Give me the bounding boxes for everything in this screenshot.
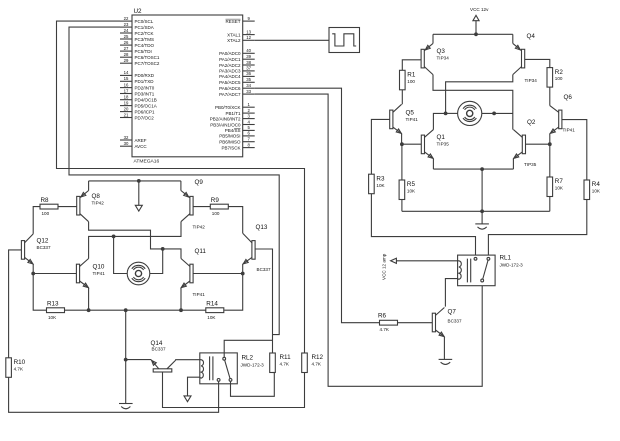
wire R2 to Q6 collector	[549, 87, 551, 106]
ground	[119, 404, 133, 409]
junction rail Q14	[124, 308, 128, 312]
svg-text:R11: R11	[280, 354, 292, 361]
wire Q10 emitter down	[88, 288, 90, 311]
junction ground rail	[480, 209, 484, 213]
power flag (down arrow)	[184, 396, 191, 402]
svg-text:PC2/TCK: PC2/TCK	[135, 31, 154, 36]
wire RL2 throw to R10	[9, 377, 219, 412]
wire motor1 right pin	[482, 112, 513, 114]
svg-text:R9: R9	[211, 197, 220, 204]
svg-text:PC3/TMS: PC3/TMS	[135, 37, 155, 42]
pin 23 PC1/SDA	[120, 26, 132, 28]
svg-text:10K: 10K	[48, 315, 57, 320]
svg-text:PD6/ICP1: PD6/ICP1	[135, 109, 156, 114]
svg-text:PD7/OC2: PD7/OC2	[135, 115, 155, 120]
clock source X1 square wave	[329, 28, 360, 53]
wire Q5 base to R3	[371, 119, 389, 174]
svg-text:10K: 10K	[555, 186, 564, 191]
transistor Q2 TIP35 (NPN)	[513, 119, 537, 167]
resistor R13	[47, 301, 65, 320]
svg-text:AREF: AREF	[135, 138, 147, 143]
pin 16 PD2/INT0	[120, 87, 132, 89]
svg-text:100: 100	[407, 79, 415, 84]
pin 21 PD7/OC2	[120, 117, 132, 119]
svg-text:35: 35	[246, 77, 251, 82]
wire R8 to Q8 base	[58, 206, 77, 208]
svg-text:15: 15	[124, 76, 129, 81]
svg-text:33: 33	[246, 89, 251, 94]
svg-text:Q13: Q13	[256, 224, 268, 231]
pin 24 PC2/TCK	[120, 32, 132, 34]
svg-text:14: 14	[124, 70, 129, 75]
wire emitter rail to ground rail	[481, 169, 483, 211]
pin 4 PB3/AIN1/OC0	[243, 124, 255, 126]
svg-text:10K: 10K	[592, 189, 601, 194]
pin 34 PA6/ADC6	[243, 87, 255, 89]
svg-text:PB6/MISO: PB6/MISO	[219, 140, 241, 145]
wire top rail bridge2	[89, 180, 181, 182]
svg-text:PD5/OC1A: PD5/OC1A	[135, 103, 157, 108]
transistor Q7 BC337 (NPN)	[432, 308, 462, 339]
transistor Q13 BC337 (NPN)	[242, 224, 271, 272]
svg-text:ATMEGA16: ATMEGA16	[134, 159, 160, 165]
junction motor1 left	[444, 112, 448, 116]
svg-text:R5: R5	[407, 181, 416, 188]
junction emitter rail	[480, 167, 484, 171]
svg-text:19: 19	[124, 100, 129, 105]
svg-text:27: 27	[124, 46, 129, 51]
svg-text:34: 34	[246, 83, 251, 88]
svg-text:Q9: Q9	[195, 179, 204, 186]
transistor Q12 BC337 (NPN)	[21, 234, 51, 265]
wire Q8 collector to Q11 collector	[89, 222, 181, 259]
wire RL2 coil down	[188, 377, 200, 396]
svg-text:TIP41: TIP41	[93, 271, 106, 276]
power flag VCC 12v	[470, 7, 489, 34]
resistor R11	[270, 353, 291, 373]
pin 39 PA1/ADC1	[243, 58, 255, 60]
wire Q12 base to R10	[9, 250, 22, 358]
transistor Q14 BC337 (NPN, rotated)	[150, 340, 175, 372]
transistor Q5 TIP41 (NPN)	[390, 104, 419, 135]
svg-text:PA1/ADC1: PA1/ADC1	[219, 57, 241, 62]
svg-text:4.7K: 4.7K	[312, 362, 322, 367]
svg-text:PC1/SDA: PC1/SDA	[135, 25, 154, 30]
transistor Q1 TIP35 (NPN)	[421, 130, 449, 160]
wire R11 bottom stub	[273, 372, 275, 374]
pin 37 PA3/ADC3	[243, 70, 255, 72]
svg-text:RL1: RL1	[500, 255, 512, 262]
svg-text:PC4/TDO: PC4/TDO	[135, 43, 155, 48]
svg-text:TIP41: TIP41	[406, 117, 419, 122]
svg-text:Q8: Q8	[92, 193, 101, 200]
transistor Q11 TIP41 (NPN)	[180, 248, 206, 297]
pin 12 XTAL2	[243, 39, 255, 41]
wire PC0 to R12	[57, 21, 305, 353]
wire Q1 emitter down	[432, 159, 434, 170]
svg-text:Q12: Q12	[37, 238, 49, 245]
svg-text:22: 22	[124, 16, 129, 21]
relay RL1 JWD-172-3	[458, 255, 524, 286]
svg-text:XTAL2: XTAL2	[227, 38, 241, 43]
svg-text:4.7K: 4.7K	[14, 366, 24, 371]
svg-text:29: 29	[124, 58, 129, 63]
wire node to Q11 base	[193, 273, 243, 275]
junction top rail	[137, 179, 141, 183]
resistor R5	[399, 180, 416, 200]
resistor R9	[210, 197, 228, 216]
resistor R1	[400, 70, 416, 90]
svg-text:36: 36	[246, 71, 251, 76]
svg-text:Q6: Q6	[564, 94, 573, 101]
svg-text:JWD-172-3: JWD-172-3	[500, 263, 524, 268]
svg-text:R12: R12	[312, 354, 324, 361]
pin 5 PB4/SS	[243, 129, 255, 131]
wire node to Q1 base	[402, 143, 421, 145]
pin 28 PC6/TOSC1	[120, 56, 132, 58]
svg-text:30: 30	[124, 141, 129, 146]
svg-text:TIP42: TIP42	[193, 225, 206, 230]
svg-text:18: 18	[124, 95, 129, 100]
svg-text:Q4: Q4	[527, 33, 536, 40]
svg-text:12: 12	[246, 35, 251, 40]
wire Q14 collector to RL2 coil	[176, 359, 200, 361]
wire ground rail	[402, 210, 550, 212]
relay RL2 JWD-172-3	[200, 353, 264, 384]
svg-text:Q2: Q2	[527, 119, 536, 126]
svg-text:JWD-172-3: JWD-172-3	[241, 363, 265, 368]
wire R4 to relay RL1 throw	[488, 200, 586, 258]
svg-text:Q5: Q5	[406, 110, 415, 117]
svg-text:VCC 12v: VCC 12v	[470, 7, 489, 12]
junction Q14 emitter	[124, 358, 128, 362]
wire Q2 emitter down	[512, 159, 514, 170]
svg-text:PA5/ADC5: PA5/ADC5	[219, 80, 241, 85]
wire XTAL2 to clock source	[255, 39, 329, 41]
wire node to R5	[401, 144, 403, 180]
microcontroller U2 ATMEGA16	[120, 8, 255, 165]
wire R3 to relay RL1 common	[371, 194, 475, 257]
svg-text:R4: R4	[592, 181, 601, 188]
wire Q7 emitter to ground	[443, 337, 445, 360]
svg-text:TIP41: TIP41	[193, 292, 206, 297]
pin 26 PC4/TDO	[120, 44, 132, 46]
svg-text:PD1/TXD: PD1/TXD	[135, 79, 155, 84]
pin 29 PC7/TOSC2	[120, 62, 132, 64]
svg-text:R7: R7	[555, 178, 564, 185]
wire Q8 emitter to rail	[88, 181, 90, 191]
svg-text:BC337: BC337	[37, 245, 51, 250]
motor motor2	[127, 262, 150, 285]
wire to motor2 left pin	[114, 236, 128, 273]
pin 19 PD5/OC1A	[120, 105, 132, 107]
svg-text:PC5/TDI: PC5/TDI	[135, 49, 152, 54]
svg-text:24: 24	[124, 28, 129, 33]
resistor R2	[547, 68, 563, 88]
svg-text:17: 17	[124, 88, 129, 93]
pin 27 PC5/TDI	[120, 50, 132, 52]
wire VCC rail	[433, 33, 513, 35]
wire R1 to Q3 base	[402, 60, 421, 71]
wire Q3 emitter to VCC rail	[432, 34, 434, 43]
svg-text:10K: 10K	[376, 183, 385, 188]
wire node to R14	[224, 274, 243, 311]
pin 30 AVCC	[120, 145, 132, 147]
junction Q12 emitter node	[31, 272, 35, 276]
wire R1 to Q5 collector	[401, 90, 403, 105]
junction Q5 emitter node	[400, 142, 404, 146]
svg-text:R14: R14	[206, 301, 218, 308]
pin 36 PA4/ADC4	[243, 75, 255, 77]
ground	[475, 211, 489, 229]
wire motor1 left to Q1 collector	[433, 113, 445, 129]
svg-text:16: 16	[124, 82, 129, 87]
svg-text:Q7: Q7	[448, 309, 457, 316]
svg-text:BC337: BC337	[257, 267, 271, 272]
pin 7 PB6/MISO	[243, 141, 255, 143]
wire Q9 emitter to rail	[180, 181, 182, 191]
svg-text:PA3/ADC3: PA3/ADC3	[219, 69, 241, 74]
pin 14 PD0/RXD	[120, 74, 132, 76]
svg-text:U2: U2	[134, 8, 143, 15]
wire Q14 base to R12	[163, 372, 305, 408]
svg-text:PD4/OC1B: PD4/OC1B	[135, 98, 157, 103]
pin 3 PB2/AIN0/INT2	[243, 118, 255, 120]
wire node to R13	[33, 274, 46, 311]
svg-text:VCC 12 amp: VCC 12 amp	[382, 253, 387, 280]
wire RL2 throw to R11	[231, 372, 275, 396]
resistor R7	[547, 177, 564, 197]
power flag (down arrow)	[135, 181, 142, 211]
wire node to Q14 emitter	[126, 359, 151, 361]
svg-text:21: 21	[124, 112, 129, 117]
transistor Q8 TIP42 (PNP)	[77, 191, 105, 222]
transistor Q9 TIP42 (PNP)	[181, 179, 205, 230]
wire Q5 emitter down	[401, 134, 403, 145]
pin 40 PA0/ADC0	[243, 52, 255, 54]
svg-text:32: 32	[124, 135, 129, 140]
wire Q4 base to R2	[525, 59, 550, 67]
svg-text:BC337: BC337	[152, 347, 166, 352]
svg-text:28: 28	[124, 52, 129, 57]
svg-text:R10: R10	[14, 359, 26, 366]
pin 2 PB1/T1	[243, 112, 255, 114]
svg-text:Q10: Q10	[93, 264, 105, 271]
junction rail R13	[87, 308, 91, 312]
pin 1 PB0/T0/XCK	[243, 106, 255, 108]
pin 20 PD6/ICP1	[120, 111, 132, 113]
wire PA7 to relay RL1 pole	[255, 94, 483, 386]
pin 6 PB5/MOSI	[243, 135, 255, 137]
svg-text:PB1/T1: PB1/T1	[225, 111, 241, 116]
svg-text:R2: R2	[555, 69, 564, 76]
wire motor1 left pin	[446, 112, 458, 114]
resistor R12	[302, 353, 324, 373]
resistor R8	[40, 197, 58, 216]
svg-text:AVCC: AVCC	[135, 144, 148, 149]
junction motor2 left	[112, 235, 116, 239]
wire emitter rail bridge2	[65, 309, 206, 311]
pin 38 PA2/ADC2	[243, 64, 255, 66]
pin 17 PD3/INT1	[120, 93, 132, 95]
wire R5 to ground rail	[401, 200, 403, 212]
pin 33 PA7/ADC7	[243, 93, 255, 95]
svg-text:PB7/SCK: PB7/SCK	[221, 145, 240, 150]
junction motor1 right	[492, 112, 496, 116]
wire R7 to ground rail	[549, 197, 551, 212]
svg-text:10K: 10K	[207, 315, 216, 320]
svg-text:100: 100	[555, 76, 563, 81]
wire node to R7	[549, 144, 551, 177]
svg-text:RESET: RESET	[225, 19, 240, 24]
wire Q4 collector to motor left	[446, 75, 513, 114]
transistor Q3 TIP34 (PNP)	[421, 43, 449, 74]
wire Q4 emitter to VCC rail	[512, 34, 514, 43]
wire to motor2 right pin	[150, 249, 163, 274]
svg-text:TIP35: TIP35	[437, 142, 450, 147]
wire R6 to Q7 base	[398, 322, 433, 324]
svg-text:40: 40	[246, 48, 251, 53]
svg-text:PD0/RXD: PD0/RXD	[135, 73, 155, 78]
wire Q13 base to R11	[255, 249, 272, 353]
svg-text:10K: 10K	[407, 189, 416, 194]
svg-text:Q1: Q1	[437, 134, 446, 141]
pin 35 PA5/ADC5	[243, 81, 255, 83]
pin 18 PD4/OC1B	[120, 99, 132, 101]
svg-text:4.7K: 4.7K	[380, 327, 390, 332]
svg-text:PB5/MOSI: PB5/MOSI	[219, 134, 240, 139]
wire PA6 to R6	[255, 88, 380, 323]
svg-text:PA2/ADC2: PA2/ADC2	[219, 63, 241, 68]
transistor Q6 TIP41 (NPN)	[549, 94, 575, 135]
wire Q12 emitter down	[32, 264, 34, 273]
pin 13 XTAL1	[243, 34, 255, 36]
svg-text:PD2/INT0: PD2/INT0	[135, 85, 155, 90]
wire Q11 emitter down	[180, 288, 182, 311]
svg-text:Q11: Q11	[195, 248, 207, 255]
resistor R4	[584, 180, 601, 200]
wire Q2 base to node	[526, 143, 550, 145]
pin 15 PD1/TXD	[120, 80, 132, 82]
resistor R14	[206, 301, 224, 320]
wire R9 to Q13 collector	[228, 207, 242, 234]
svg-text:PB0/T0/XCK: PB0/T0/XCK	[215, 105, 241, 110]
svg-text:PB2/AIN0/INT2: PB2/AIN0/INT2	[210, 116, 241, 121]
wire rail to ground	[125, 310, 127, 403]
junction motor2 right	[161, 247, 165, 251]
svg-text:R8: R8	[41, 197, 50, 204]
wire Q3 collector to Q2 collector	[433, 75, 513, 130]
svg-text:PA6/ADC6: PA6/ADC6	[219, 86, 241, 91]
svg-text:XTAL1: XTAL1	[227, 32, 241, 37]
pin 32 AREF	[120, 139, 132, 141]
transistor Q10 TIP41 (NPN)	[76, 259, 105, 290]
svg-text:PB4/SS: PB4/SS	[225, 128, 241, 133]
svg-text:38: 38	[246, 60, 251, 65]
svg-text:PA0/ADC0: PA0/ADC0	[219, 51, 241, 56]
wire Q10 collector to Q9 collector	[89, 222, 181, 259]
svg-text:TIP42: TIP42	[92, 201, 105, 206]
svg-text:4.7K: 4.7K	[280, 362, 290, 367]
svg-text:PD3/INT1: PD3/INT1	[135, 91, 155, 96]
wire Q9 base to R9	[193, 206, 210, 208]
svg-text:39: 39	[246, 54, 251, 59]
svg-text:26: 26	[124, 40, 129, 45]
junction Q13 emitter node	[241, 272, 245, 276]
wire RL2 common to R11 node	[224, 340, 272, 357]
power flag VCC 12v (relay coil)	[382, 253, 458, 280]
svg-text:R1: R1	[407, 72, 416, 79]
wire R8 to Q12 collector	[33, 207, 40, 234]
pin 8 PB7/SCK	[243, 147, 255, 149]
svg-text:PA4/ADC4: PA4/ADC4	[219, 74, 241, 79]
junction Q6 emitter node	[548, 142, 552, 146]
svg-text:PC7/TOSC2: PC7/TOSC2	[135, 61, 160, 66]
svg-text:20: 20	[124, 106, 129, 111]
svg-text:13: 13	[246, 29, 251, 34]
wire Q6 emitter down	[549, 134, 551, 145]
ground	[439, 359, 453, 364]
resistor R10	[6, 358, 26, 378]
svg-text:BC337: BC337	[448, 319, 462, 324]
transistor Q4 TIP34 (PNP)	[513, 33, 537, 83]
svg-text:R3: R3	[376, 175, 385, 182]
junction VCC rail	[474, 32, 478, 36]
wire Q13 emitter down	[242, 264, 244, 273]
svg-text:R6: R6	[378, 313, 387, 320]
wire PC1 to R11 node	[69, 27, 279, 335]
svg-text:PB3/AIN1/OC0: PB3/AIN1/OC0	[210, 122, 241, 127]
svg-text:TIP34: TIP34	[525, 78, 538, 83]
svg-text:R13: R13	[47, 301, 59, 308]
pin 25 PC3/TMS	[120, 38, 132, 40]
svg-text:PC0/SCL: PC0/SCL	[135, 19, 154, 24]
svg-text:TIP35: TIP35	[524, 162, 537, 167]
svg-text:PC6/TOSC1: PC6/TOSC1	[135, 55, 160, 60]
svg-text:100: 100	[212, 211, 220, 216]
svg-text:25: 25	[124, 34, 129, 39]
junction rail Q11	[179, 308, 183, 312]
resistor R3	[369, 174, 386, 194]
svg-text:RL2: RL2	[242, 355, 254, 362]
svg-text:PA7/ADC7: PA7/ADC7	[219, 92, 241, 97]
wire RL1 coil to Q7 collector	[445, 279, 457, 307]
svg-text:23: 23	[124, 22, 129, 27]
wire Q6 base to R4	[562, 120, 587, 180]
wire node to Q10 base	[33, 273, 76, 275]
svg-text:100: 100	[42, 211, 50, 216]
wire emitter rail	[433, 168, 513, 170]
pin 22 PC0/SCL	[120, 20, 132, 22]
motor motor1	[458, 101, 482, 125]
pin 9 RESET	[243, 20, 255, 22]
svg-text:TIP41: TIP41	[563, 128, 576, 133]
svg-text:37: 37	[246, 66, 251, 71]
svg-text:TIP34: TIP34	[437, 56, 450, 61]
svg-text:Q3: Q3	[437, 48, 446, 55]
resistor R6	[378, 313, 398, 332]
